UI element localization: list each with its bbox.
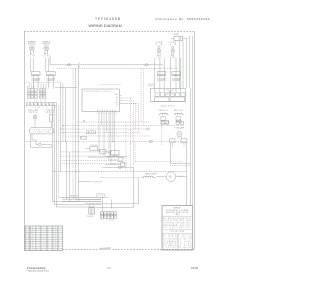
- svg-text:12: 12: [26, 229, 30, 231]
- svg-text:ELEMENT: ELEMENT: [172, 80, 180, 82]
- svg-text:W12: W12: [88, 132, 94, 134]
- svg-text:SWITCH: SWITCH: [46, 112, 54, 114]
- svg-text:21: 21: [41, 249, 45, 251]
- svg-text:TEF364ASB: TEF364ASB: [95, 17, 121, 21]
- svg-text:12: 12: [26, 240, 30, 242]
- svg-text:N2: N2: [53, 229, 57, 231]
- door lock stub: [78, 181, 92, 183]
- svg-text:316441800: 316441800: [99, 246, 112, 251]
- svg-text:L1: L1: [79, 63, 81, 65]
- junction dots bundle: [60, 128, 61, 129]
- svg-text:BK SPT: BK SPT: [113, 155, 120, 157]
- stub line J2: [105, 164, 121, 166]
- svg-text:BEFORE SERVICING: BEFORE SERVICING: [166, 212, 188, 214]
- svg-text:L1: L1: [28, 93, 30, 95]
- svg-text:P: P: [111, 217, 112, 219]
- svg-text:L1: L1: [31, 93, 33, 95]
- connector block P1: [100, 212, 103, 215]
- svg-text:B: B: [46, 104, 47, 106]
- svg-text:L1: L1: [35, 97, 37, 99]
- svg-text:8 IN 2100W: 8 IN 2100W: [47, 78, 56, 80]
- label box R: [80, 136, 86, 139]
- svg-text:09/05: 09/05: [191, 267, 199, 270]
- crossing wires: [166, 89, 174, 96]
- svg-text:L1 H1: L1 H1: [43, 56, 50, 58]
- svg-text:BK: BK: [30, 247, 33, 249]
- svg-text:ELECTRONIC CLOCK: ELECTRONIC CLOCK: [84, 91, 111, 93]
- electronic clock EOC U1: [82, 89, 120, 112]
- svg-text:L1: L1: [36, 240, 40, 242]
- transformer T1: [89, 208, 95, 215]
- svg-text:12: 12: [26, 231, 30, 233]
- svg-text:L1: L1: [36, 238, 40, 240]
- harness bundle vertical wires: [51, 106, 53, 202]
- svg-text:SWITCH: SWITCH: [29, 112, 37, 114]
- svg-text:6 IN 1500W: 6 IN 1500W: [157, 78, 166, 80]
- svg-text:L1: L1: [31, 90, 33, 92]
- svg-text:BK: BK: [30, 245, 33, 247]
- boxes above lamp: [161, 120, 168, 123]
- svg-text:N2: N2: [43, 97, 45, 99]
- svg-text:P: P: [101, 217, 102, 219]
- element E2 lead wires: [48, 76, 50, 89]
- svg-text:21: 21: [41, 234, 45, 236]
- svg-text:Publication No: 5995443292: Publication No: 5995443292: [156, 17, 210, 21]
- svg-text:OVEN: OVEN: [170, 42, 177, 44]
- schematic border frame: [24, 31, 194, 250]
- svg-text:L1: L1: [36, 236, 40, 238]
- svg-text:UNIT: UNIT: [176, 214, 179, 216]
- svg-text:21: 21: [41, 236, 45, 238]
- svg-text:12: 12: [26, 236, 30, 238]
- junction dot A: [27, 86, 28, 87]
- svg-text:12: 12: [26, 227, 30, 229]
- surface element E4: [172, 72, 181, 76]
- relay aux box K2: [176, 117, 180, 121]
- svg-text:L1: L1: [31, 97, 33, 99]
- bead on neutral bus: [149, 141, 153, 143]
- svg-text:N2: N2: [43, 90, 45, 92]
- svg-text:P: P: [104, 217, 105, 219]
- svg-text:21: 21: [41, 243, 45, 245]
- svg-text:12: 12: [26, 238, 30, 240]
- svg-text:L1: L1: [36, 247, 40, 249]
- svg-text:L1: L1: [35, 93, 37, 95]
- svg-text:LOCK SW: LOCK SW: [90, 145, 98, 147]
- convection motor M1: [166, 172, 176, 182]
- svg-text:L1: L1: [36, 227, 40, 229]
- dotted feed drops: [140, 68, 142, 122]
- svg-text:21: 21: [41, 238, 45, 240]
- svg-text:OVEN LIGHT: OVEN LIGHT: [28, 110, 39, 112]
- light switch S2: [50, 114, 53, 121]
- surface element E1: [30, 58, 32, 72]
- junction box J2: [121, 163, 125, 167]
- svg-text:21: 21: [41, 229, 45, 231]
- neutral dashed feed: [57, 67, 179, 69]
- svg-text:B: B: [50, 104, 51, 106]
- svg-text:21: 21: [41, 240, 45, 242]
- svg-text:21: 21: [41, 227, 45, 229]
- svg-text:* Non-Illustrated Parts: * Non-Illustrated Parts: [27, 270, 50, 273]
- svg-text:BK: BK: [83, 120, 85, 122]
- svg-text:1 2 3 4 5 6 7 8: 1 2 3 4 5 6 7 8: [27, 107, 56, 109]
- switch bank feed wires: [154, 58, 156, 93]
- svg-text:CONTROLS OFF USE ONLY: CONTROLS OFF USE ONLY: [163, 223, 191, 225]
- svg-text:PR PURPLE: PR PURPLE: [163, 243, 177, 245]
- wires bottom cluster: [96, 203, 139, 205]
- svg-text:12: 12: [26, 249, 30, 251]
- svg-text:SWITCH: SWITCH: [28, 43, 36, 45]
- stub wires to terminals: [28, 84, 30, 89]
- clock right pin drop wires: [125, 122, 127, 172]
- svg-text:B: B: [34, 104, 35, 106]
- svg-text:BK: BK: [30, 234, 33, 236]
- surface element E3: [157, 72, 166, 76]
- svg-text:L1: L1: [36, 249, 40, 251]
- stub line J1: [105, 156, 127, 158]
- svg-text:MOTOR: MOTOR: [96, 195, 105, 197]
- svg-text:DOOR LOCK: DOOR LOCK: [96, 194, 105, 196]
- svg-text:Y YELLOW: Y YELLOW: [178, 237, 192, 239]
- svg-text:N2: N2: [53, 227, 57, 229]
- lamp wires: [171, 143, 173, 147]
- svg-text:12: 12: [26, 243, 30, 245]
- svg-text:N2: N2: [53, 245, 57, 247]
- drop wire to connector A: [65, 142, 67, 200]
- door lock switch SW6: [100, 150, 106, 154]
- svg-text:COLOR CODE: COLOR CODE: [170, 231, 184, 233]
- bus rows lower: [61, 151, 112, 153]
- terminal strip row: [26, 103, 29, 106]
- svg-text:ELEMENT: ELEMENT: [157, 80, 165, 82]
- wire run lower right: [170, 143, 172, 163]
- svg-text:BROIL RLY: BROIL RLY: [174, 110, 183, 112]
- svg-text:BK: BK: [30, 243, 33, 245]
- bus wire W: [63, 125, 185, 127]
- legend table: [162, 232, 193, 234]
- clock pin stubs bottom: [96, 110, 98, 112]
- svg-text:21: 21: [41, 247, 45, 249]
- main L2 bus: [52, 171, 186, 173]
- svg-text:L1: L1: [36, 231, 40, 233]
- svg-text:N2: N2: [53, 238, 57, 240]
- svg-text:12: 12: [26, 234, 30, 236]
- svg-text:L1: L1: [35, 90, 37, 92]
- link wire: [55, 87, 77, 89]
- svg-text:12: 12: [26, 245, 30, 247]
- svg-text:ELEMENT: ELEMENT: [47, 80, 55, 82]
- svg-text:N2: N2: [53, 236, 57, 238]
- fuse F1: [118, 166, 122, 168]
- svg-text:BK: BK: [30, 240, 33, 242]
- wire with fuse: [102, 166, 133, 168]
- door switch box: [30, 128, 54, 134]
- clock right side pins: [120, 94, 122, 96]
- label box W: [87, 131, 96, 134]
- switch bank outline: [150, 89, 185, 102]
- svg-text:M: M: [169, 176, 171, 179]
- svg-text:N2: N2: [53, 234, 57, 236]
- motor wires: [157, 176, 167, 178]
- svg-text:BK: BK: [30, 229, 33, 231]
- pin chart table: [25, 226, 63, 251]
- clock pin wires down: [98, 112, 100, 152]
- TOD left stub: [171, 37, 174, 39]
- svg-text:N2: N2: [40, 97, 42, 99]
- svg-text:8 IN 2100W: 8 IN 2100W: [32, 78, 41, 80]
- svg-text:B: B: [42, 104, 43, 106]
- svg-text:17: 17: [107, 267, 111, 270]
- terminal block TB1: [28, 89, 31, 92]
- coil mark on wire: [148, 84, 154, 87]
- svg-text:1 2 3 4 5 6 7 8: 1 2 3 4 5 6 7 8: [97, 113, 118, 115]
- svg-text:L1: L1: [28, 90, 30, 92]
- svg-text:L1: L1: [36, 243, 40, 245]
- svg-text:P: P: [114, 217, 115, 219]
- svg-text:B: B: [38, 104, 39, 106]
- svg-text:P1 CONN: P1 CONN: [101, 220, 114, 222]
- svg-text:L1H1: L1H1: [156, 57, 161, 59]
- door lock switch SW7: [110, 151, 119, 155]
- svg-text:N2: N2: [53, 243, 57, 245]
- svg-text:OVEN: OVEN: [156, 42, 163, 44]
- bus dashed left low: [26, 81, 62, 83]
- terminal block TB2: [40, 89, 43, 92]
- junction dot B: [33, 86, 34, 87]
- connector bead mid: [145, 64, 149, 66]
- legend notice box: [162, 206, 193, 251]
- junction box J1: [118, 157, 123, 161]
- svg-text:BR BROWN: BR BROWN: [163, 239, 177, 241]
- svg-text:L1: L1: [36, 245, 40, 247]
- svg-text:L1: L1: [28, 97, 30, 99]
- connector bead loop: [38, 144, 42, 146]
- svg-text:12: 12: [26, 247, 30, 249]
- svg-text:N2: N2: [40, 90, 42, 92]
- svg-text:B: B: [31, 104, 32, 106]
- oven lamp L2: [34, 114, 36, 115]
- svg-text:N2: N2: [53, 231, 57, 233]
- svg-text:N2: N2: [53, 249, 57, 251]
- svg-text:BK: BK: [30, 231, 33, 233]
- right harness verticals: [189, 88, 191, 206]
- dashed branch: [100, 177, 139, 179]
- svg-text:NOTICE:: NOTICE:: [174, 208, 181, 210]
- switch contact boxes: [155, 93, 159, 96]
- svg-text:N2: N2: [40, 93, 42, 95]
- relay terminals: [161, 122, 164, 125]
- svg-text:N2: N2: [53, 240, 57, 242]
- legend divider 1: [162, 215, 193, 217]
- svg-text:ELEMENT: ELEMENT: [32, 80, 40, 82]
- bus wire R: [61, 128, 146, 130]
- svg-text:N2: N2: [43, 93, 45, 95]
- svg-text:WB WH/BK: WB WH/BK: [178, 247, 192, 249]
- bus wire Y: [66, 135, 150, 137]
- relay aux box K1: [161, 117, 165, 121]
- svg-text:GN GREEN: GN GREEN: [163, 245, 177, 247]
- wire loop to door switch: [30, 134, 32, 148]
- svg-text:21: 21: [41, 231, 45, 233]
- bus wire OR: [61, 132, 141, 134]
- svg-text:WIRING DIAGRAM: WIRING DIAGRAM: [89, 24, 122, 28]
- svg-text:SWITCH: SWITCH: [42, 43, 50, 45]
- svg-text:BK: BK: [30, 227, 33, 229]
- svg-text:N2: N2: [53, 247, 57, 249]
- connector bead on L1 feed: [67, 64, 71, 66]
- svg-text:L1: L1: [36, 229, 40, 231]
- svg-text:DOOR LOCK: DOOR LOCK: [93, 182, 102, 184]
- svg-text:BK: BK: [30, 236, 33, 238]
- long vertical wires mid: [72, 68, 74, 199]
- svg-text:T STAT: T STAT: [172, 33, 179, 36]
- svg-text:P: P: [108, 217, 109, 219]
- main neutral bus: [26, 141, 187, 143]
- door lock switch SW5: [90, 147, 98, 151]
- svg-text:DISCONNECT POWER: DISCONNECT POWER: [166, 210, 188, 212]
- svg-text:LT SWITCH: LT SWITCH: [45, 110, 55, 112]
- svg-text:L1: L1: [36, 234, 40, 236]
- svg-text:BK: BK: [30, 249, 33, 251]
- bus wire BK: [77, 121, 150, 123]
- svg-text:L1H1: L1H1: [170, 57, 175, 59]
- dashed stub above clock: [99, 84, 121, 86]
- drop wire to connector B: [68, 152, 70, 201]
- svg-text:BK: BK: [30, 238, 33, 240]
- legend divider 2: [162, 229, 193, 231]
- svg-text:# Functional Parts: # Functional Parts: [27, 267, 46, 270]
- svg-text:21: 21: [41, 245, 45, 247]
- right feed wires: [179, 41, 181, 89]
- svg-text:L1 H1: L1 H1: [28, 56, 35, 58]
- element E1 lead wires: [33, 76, 35, 89]
- dashed drop x161: [160, 123, 162, 145]
- connector bead bus: [146, 128, 150, 130]
- svg-text:B: B: [27, 104, 28, 106]
- wire L1 feed: [49, 56, 51, 65]
- svg-text:L1 L2 N P: L1 L2 N P: [28, 101, 46, 103]
- surface element E2: [45, 58, 47, 72]
- svg-text:LIGHT SW: LIGHT SW: [34, 132, 50, 134]
- lock switch wires: [85, 148, 90, 150]
